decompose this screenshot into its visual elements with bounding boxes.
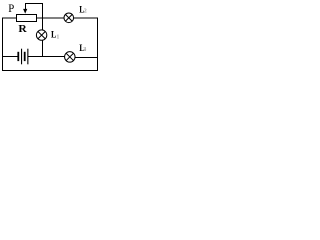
wire battery rail from left rail — [2, 56, 18, 57]
battery plate short thick 1 — [17, 52, 19, 61]
wire lamp L3 right lead to right rail — [75, 57, 98, 58]
battery plate long thin 2 — [27, 49, 28, 65]
battery plate short thick 2 — [24, 52, 26, 61]
wire main horizontal resistor to lamp L2 to right rail — [36, 18, 98, 19]
lamp L3 (bottom right) — [65, 52, 76, 63]
wire top-left horizontal to resistor — [2, 18, 17, 19]
resistor R (rheostat box) — [17, 15, 37, 22]
svg-text:3: 3 — [83, 47, 86, 53]
wire bottom rail horizontal — [2, 70, 98, 71]
wire junction vertical down to lamp L1 and battery rail — [42, 3, 43, 57]
battery B (two cells) — [17, 49, 28, 65]
wire battery positive to lamp L3 — [28, 56, 70, 57]
svg-text:P: P — [8, 2, 14, 15]
potentiometer slider arrow P — [23, 9, 27, 14]
wire right rail vertical — [97, 18, 98, 71]
battery plate long thin 1 — [21, 49, 22, 65]
wire slider vertical — [25, 3, 26, 11]
svg-text:1: 1 — [56, 34, 59, 40]
svg-text:R: R — [18, 23, 27, 35]
wire left rail vertical — [2, 18, 3, 71]
svg-text:2: 2 — [84, 8, 87, 14]
lamp L1 (middle) — [36, 30, 46, 40]
wire slider tap horizontal top — [25, 3, 43, 4]
lamp L2 (top) — [64, 13, 74, 23]
